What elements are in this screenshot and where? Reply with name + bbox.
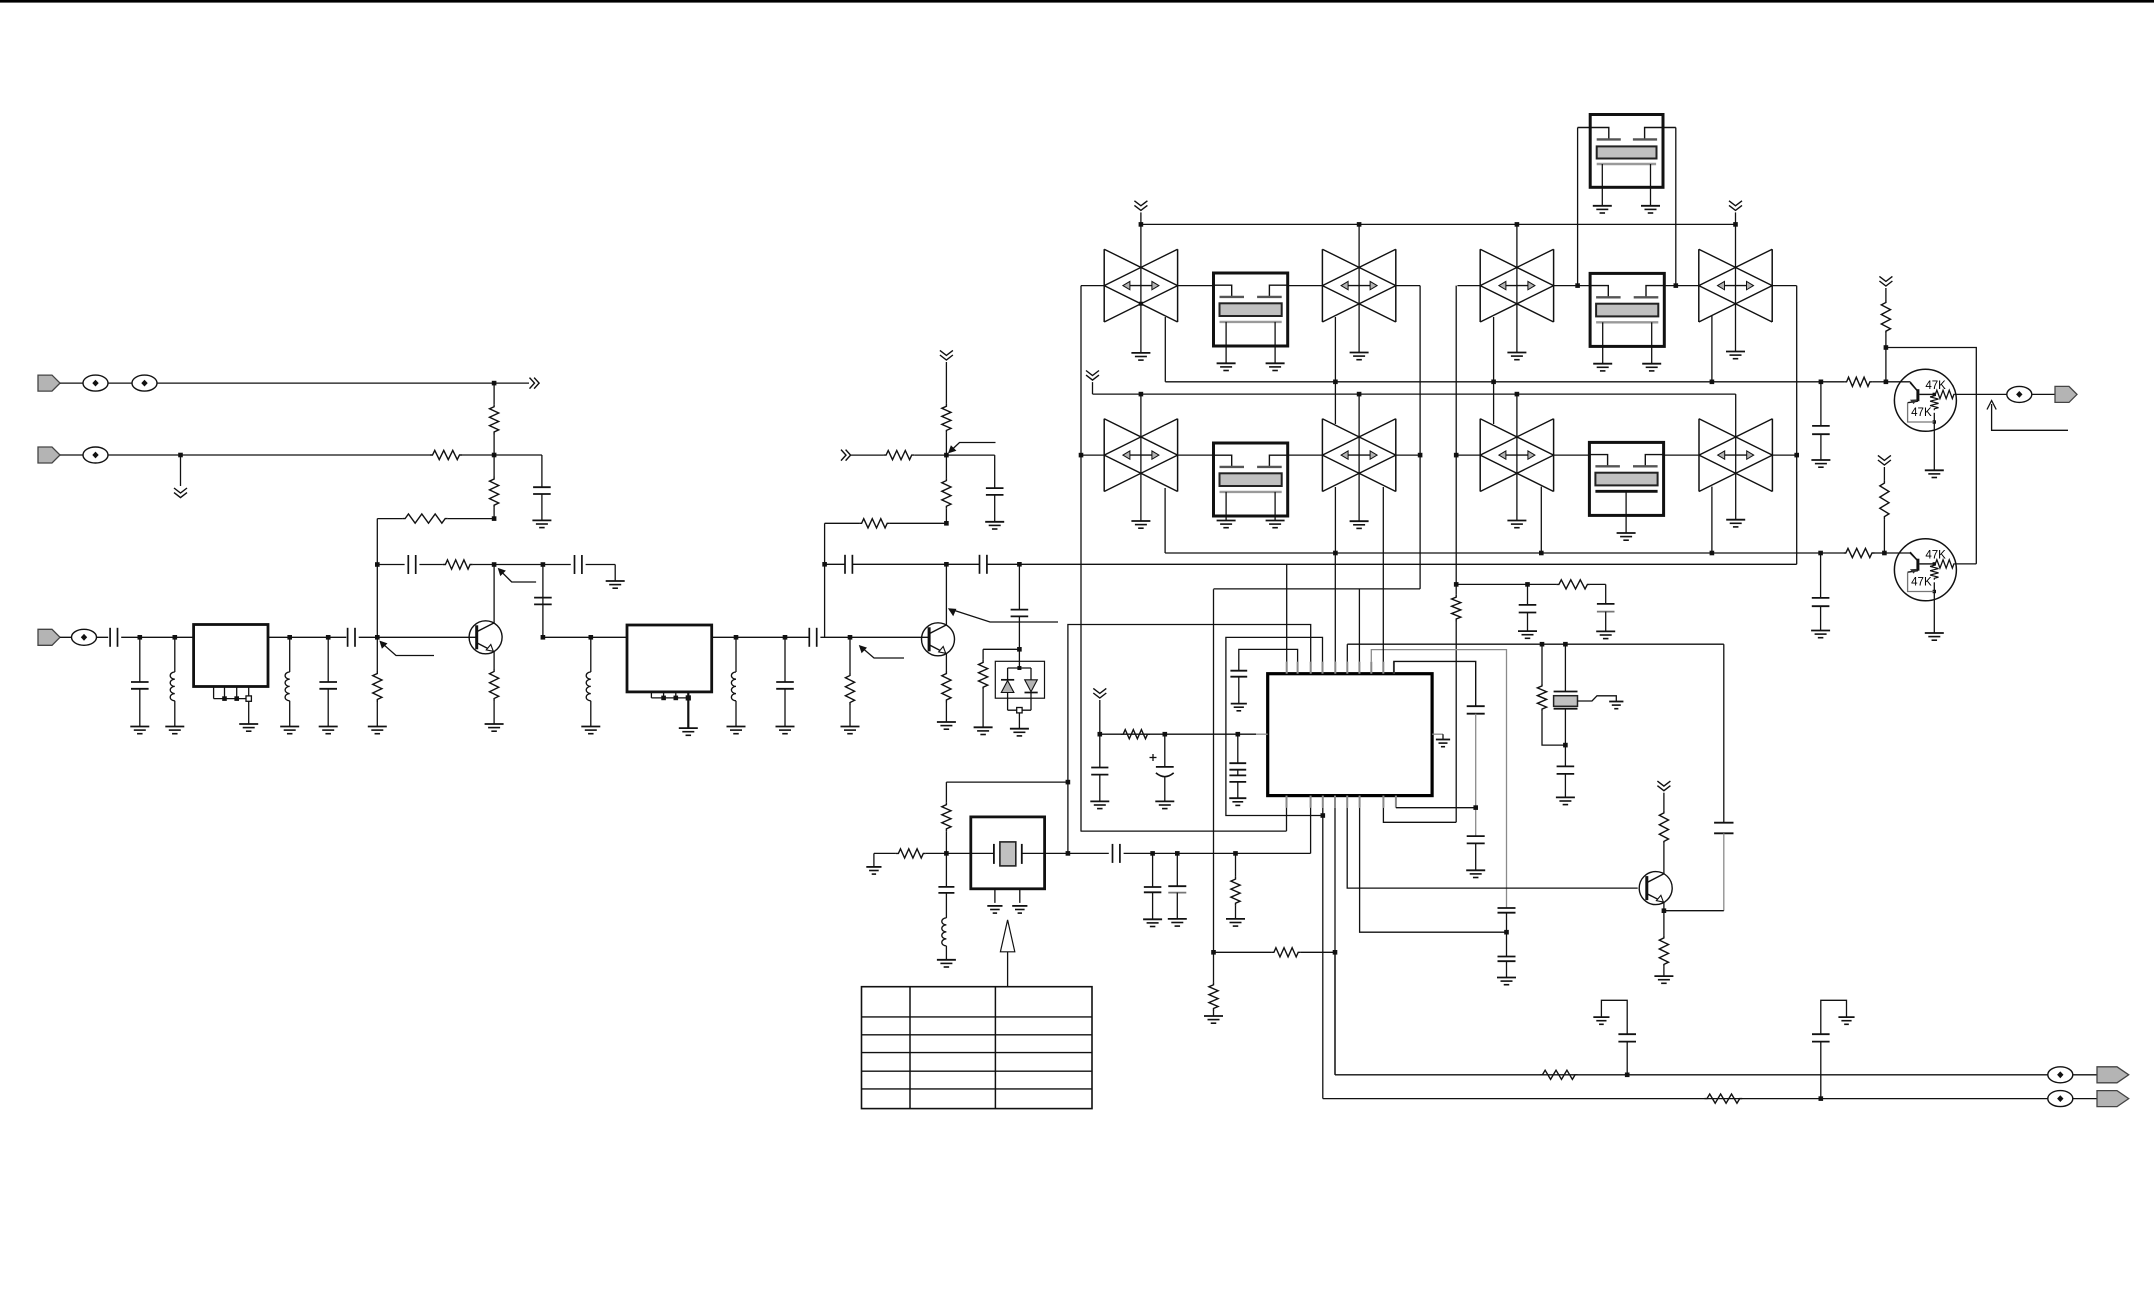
- wire pin9 to SW6 stub: [1382, 487, 1384, 662]
- wire pin5 from B2: [1334, 553, 1336, 662]
- table (crystal options): [862, 987, 1093, 1109]
- node pin16 join: [1473, 805, 1478, 810]
- ground C17: [1231, 703, 1247, 705]
- capacitor C31: [1564, 745, 1566, 766]
- wire Q2 collector: [945, 565, 947, 626]
- line A (switch control row1): [1165, 381, 1844, 383]
- wire: [1663, 793, 1665, 811]
- capacitor C34 (out2): [1820, 1042, 1822, 1099]
- wire pin11 box bottom: [1286, 808, 1288, 831]
- IC bottom pin stubs: [1286, 796, 1288, 808]
- svg-text:47K: 47K: [1925, 380, 1946, 392]
- wire: [543, 564, 571, 566]
- ground R22: [1204, 1015, 1223, 1017]
- wire: [1872, 381, 1886, 383]
- ferrite bead FB4: [72, 629, 97, 645]
- capacitor C10 (coupling): [808, 628, 810, 647]
- node rail2 c: [1515, 392, 1520, 397]
- ground C16: [1811, 630, 1830, 632]
- bus group1 left (wire): [1080, 286, 1082, 832]
- wire: [851, 454, 884, 456]
- capacitor C30: [1597, 603, 1615, 605]
- switch SW1 gate wire: [1140, 224, 1142, 353]
- capacitor C27: [1152, 853, 1154, 887]
- stub SW8 low: [1711, 487, 1713, 553]
- node Q3 emitter: [1662, 908, 1667, 913]
- node lineA cap: [1819, 380, 1824, 385]
- wire: [2032, 393, 2056, 395]
- node discr tap a: [1540, 642, 1545, 647]
- resistor R3 (feedback upper): [403, 514, 448, 523]
- ground L5: [937, 959, 956, 961]
- ground C6: [130, 726, 149, 728]
- node C14 tap: [1017, 562, 1022, 567]
- ground R6: [368, 726, 387, 728]
- capacitor C14 (to limiter): [1018, 564, 1020, 609]
- node out vertical row2: [1794, 453, 1799, 458]
- bus group2 left (wire): [1455, 286, 1457, 595]
- wire pin12 to crystal line: [1310, 808, 1312, 854]
- resistor R19 (osc feedback): [945, 782, 947, 802]
- wire Q4 out: [1955, 393, 2008, 395]
- node supply a: [1098, 732, 1103, 737]
- wire U-loop pin4: [1226, 637, 1323, 815]
- capacitor C7 (shunt): [327, 637, 329, 682]
- stub SW2/SW6: [1334, 317, 1336, 424]
- node bus1213 low: [1211, 950, 1216, 955]
- crystal Y1 (box): [971, 817, 1045, 889]
- node Q1 base: [375, 635, 380, 640]
- capacitor C25 (osc): [945, 853, 947, 887]
- wire: [462, 454, 494, 456]
- node discr cap1: [1525, 582, 1530, 587]
- wire Q1 base: [377, 636, 476, 638]
- node bus1420 row2: [1418, 453, 1423, 458]
- supply arrow Q3: [1657, 781, 1670, 791]
- row1 signal wires: [1081, 285, 1104, 287]
- connector J4 (output): [2055, 386, 2077, 402]
- capacitor C29: [1527, 584, 1529, 605]
- wire Q5 out: [1955, 563, 1976, 565]
- FL2 ground pins: [650, 692, 652, 698]
- node lineA c: [1491, 380, 1496, 385]
- resistor R22 (bus1213 shunt): [1213, 952, 1215, 982]
- node SW1 crossing: [1139, 302, 1143, 306]
- inductor L4 (shunt): [735, 637, 737, 672]
- wire X5 right leg: [1675, 128, 1677, 286]
- analog switch SW2: [1321, 249, 1323, 322]
- supply line: [1100, 733, 1256, 735]
- resistor R20: [1235, 853, 1237, 876]
- wire F2 long: [987, 563, 1797, 565]
- wire pin15 Q3 base: [1347, 808, 1638, 888]
- ground D1: [1010, 728, 1029, 730]
- pointer arrow at Q1 collector: [501, 571, 536, 582]
- ground C29: [1518, 630, 1537, 632]
- wire F2 b: [946, 563, 979, 565]
- wire: [946, 454, 994, 456]
- net arrow down (line2): [174, 488, 187, 498]
- node rail1 c: [1515, 222, 1520, 227]
- node rail2 a: [1139, 392, 1144, 397]
- transistor Q5 (digital 47K): [1894, 539, 1956, 601]
- wire FL1 out: [268, 636, 346, 638]
- capacitor C8 (coupling): [347, 628, 349, 647]
- wire Q4 emitter: [1933, 422, 1935, 470]
- node Q5 base: [1882, 551, 1887, 556]
- node Q4 load: [1884, 345, 1889, 350]
- ground IC right pin: [1436, 739, 1450, 741]
- ferrite bead FB7: [2048, 1091, 2073, 1107]
- net arrow right (line1): [530, 378, 540, 389]
- ground C7: [319, 726, 338, 728]
- wire out2: [1323, 1098, 2048, 1100]
- capacitor C6 (shunt): [139, 637, 141, 682]
- node L1: [173, 635, 178, 640]
- resistor R9a (collector load upper): [942, 404, 951, 433]
- ground C21: [1466, 869, 1485, 871]
- node xtal in: [944, 851, 949, 856]
- wire: [1883, 467, 1885, 481]
- wire pin18: [1396, 807, 1476, 809]
- wire Q3 emitter: [1663, 902, 1665, 935]
- wire Q2 base: [850, 636, 929, 638]
- wire: [1663, 967, 1665, 976]
- node C28: [1175, 851, 1180, 856]
- discr line: [1456, 583, 1556, 585]
- node supply c: [1236, 732, 1241, 737]
- wire res line: [1214, 951, 1272, 953]
- resistor R27 (Q4 load): [1881, 300, 1890, 334]
- resistor R10 (Q2 base bias): [849, 637, 851, 673]
- line B2 (switch control row2): [1165, 552, 1843, 554]
- table annotation arrow: [1007, 952, 1009, 987]
- ground Q5: [1925, 632, 1944, 634]
- wire: [1301, 951, 1335, 953]
- wire to C1: [494, 454, 542, 456]
- ground L2: [280, 726, 299, 728]
- svg-text:47K: 47K: [1911, 407, 1932, 419]
- node line1-collector junction: [492, 381, 497, 386]
- capacitor C19: [1498, 956, 1516, 958]
- IC right pin: [1432, 733, 1443, 735]
- wire Q5 base: [1884, 552, 1910, 554]
- wire: [1885, 348, 1887, 382]
- rail1 supply arrow left: [1134, 201, 1147, 211]
- wire: [1590, 583, 1606, 585]
- wire: [820, 636, 850, 638]
- wire loop: [1886, 348, 1976, 564]
- node out2 cap: [1819, 1096, 1824, 1101]
- node B2 cap: [1818, 551, 1823, 556]
- ground C27: [1143, 918, 1162, 920]
- resistor R7 (Q1 emitter): [490, 669, 499, 701]
- SAW filter X2: [1214, 443, 1288, 516]
- rail1 supply arrow right: [1729, 201, 1742, 211]
- resistor R6 (base bias): [376, 637, 378, 671]
- resistor R26 (Q3 emitter): [1659, 935, 1668, 967]
- resistor R15 (Q4 base): [1844, 377, 1872, 386]
- rail2 supply arrow: [1086, 371, 1099, 381]
- SAW filter X1: [1214, 273, 1288, 346]
- resistor R8 (bias feed): [884, 451, 915, 460]
- node rail1 b: [1357, 222, 1362, 227]
- wire: [121, 636, 193, 638]
- wire pin10 loop right: [1394, 661, 1476, 706]
- ground C15: [1811, 459, 1830, 461]
- wire: [586, 564, 616, 566]
- capacitor C18: [1498, 907, 1516, 909]
- wire out1 vertical: [1334, 952, 1336, 1075]
- wire W4 pin7: [1358, 589, 1360, 662]
- svg-text:47K: 47K: [1911, 576, 1932, 588]
- ground R20: [1226, 918, 1245, 920]
- wire fb: [890, 522, 947, 524]
- wire: [1664, 910, 1724, 912]
- wire osc top: [946, 781, 1068, 783]
- IC U1 (main receiver IC): [1268, 674, 1432, 796]
- switch SW4 gate wire: [1735, 224, 1737, 351]
- ground FL1: [239, 723, 258, 725]
- capacitor C12 (fb series): [844, 555, 846, 574]
- ground Q4: [1925, 469, 1944, 471]
- wire Q1 out drop: [542, 565, 544, 638]
- node R2/R3: [492, 516, 497, 521]
- wire: [494, 564, 543, 566]
- wire input: [60, 636, 108, 638]
- resistor R1 (collector load): [490, 404, 499, 434]
- resistor R4 (line2 series): [430, 450, 462, 459]
- wire to arrow: [494, 382, 529, 384]
- resistor R29 (out1): [1540, 1070, 1578, 1079]
- wire: [926, 852, 971, 854]
- node rail2 b: [1357, 392, 1362, 397]
- node L2: [287, 635, 292, 640]
- ground Q1 emitter: [485, 723, 504, 725]
- switch SW7 gate wire: [1516, 394, 1518, 520]
- wire: [1885, 288, 1887, 300]
- ferrite bead FB2: [132, 375, 157, 391]
- analog switch SW8: [1698, 419, 1700, 492]
- wire fb: [377, 564, 404, 566]
- wire to R13: [983, 648, 1019, 650]
- wire Q1 collector: [493, 565, 495, 624]
- capacitor C21: [1467, 835, 1485, 837]
- node Q2 fb: [944, 521, 949, 526]
- capacitor C24b: [1229, 774, 1246, 776]
- pointer arrow at divider top: [951, 443, 996, 451]
- row2 signal wires: [1081, 454, 1104, 456]
- resistor R16 (Q5 base): [1843, 548, 1874, 557]
- resistor R2 (divider): [490, 477, 499, 508]
- node L4: [734, 635, 739, 640]
- wire fb drop: [824, 523, 826, 637]
- node C9: [783, 635, 788, 640]
- ground Z1 tap: [1609, 701, 1623, 703]
- capacitor C11 (bias bypass): [994, 455, 996, 488]
- stub SW6 low: [1334, 487, 1336, 553]
- wire supply: [945, 362, 947, 404]
- wire: [2073, 1074, 2098, 1076]
- wire Q5 emitter: [1933, 592, 1935, 634]
- wire pin17 to bus1456: [1383, 808, 1456, 823]
- wire line2 left: [60, 454, 181, 456]
- connector J3 (RF input): [38, 629, 60, 645]
- wire: [419, 564, 443, 566]
- node L3: [589, 635, 594, 640]
- connector J6 (output low 2): [2097, 1091, 2129, 1107]
- inductor L2 (shunt): [289, 637, 291, 672]
- wire pin2 loop: [1239, 649, 1298, 670]
- capacitor C13 (output series): [979, 555, 981, 574]
- wire: [825, 522, 860, 524]
- node lineA b: [1333, 380, 1338, 385]
- wire: [1875, 552, 1885, 554]
- ground L1: [165, 726, 184, 728]
- capacitor C4 (interstage): [534, 597, 552, 599]
- capacitor C28: [1176, 853, 1178, 886]
- wire pin14 down: [1334, 808, 1336, 1075]
- wire discr to Q3: [1723, 644, 1725, 823]
- top border bar: [0, 0, 2154, 3]
- resistor R12 (Q2 feedback): [859, 519, 890, 528]
- bus group1 right (wire): [1419, 286, 1421, 589]
- wire: [543, 636, 627, 638]
- node rail1 d: [1733, 222, 1738, 227]
- wire osc drop: [1067, 782, 1069, 853]
- wire pin13 down: [1322, 808, 1324, 1099]
- node F2 left: [822, 562, 827, 567]
- wire out1: [1335, 1074, 2048, 1076]
- node Q2 base: [848, 635, 853, 640]
- node C4 tap: [541, 562, 546, 567]
- filter FL1 (box): [194, 625, 268, 687]
- ground C28: [1168, 918, 1187, 920]
- wire: [493, 455, 495, 477]
- node R21 right: [1333, 950, 1338, 955]
- analog switch SW4: [1698, 249, 1700, 322]
- node line2 stub: [178, 453, 183, 458]
- wire R3 line: [448, 518, 494, 520]
- stub wire down: [180, 455, 182, 486]
- ground Q2 emitter: [937, 721, 956, 723]
- node C6: [138, 635, 143, 640]
- ground C30: [1596, 630, 1615, 632]
- capacitor C2 (feedback): [407, 555, 409, 574]
- wire xtal out: [1045, 852, 1109, 854]
- node lineA d: [1710, 380, 1715, 385]
- bus 1213 (wire): [1213, 589, 1215, 952]
- pointer arrow at Q1 base: [382, 643, 434, 655]
- resistor R5 (feedback): [443, 560, 473, 569]
- resistor R30 (out2): [1705, 1094, 1743, 1103]
- FL1 ground pins: [213, 687, 215, 699]
- analog switch SW7: [1479, 419, 1481, 492]
- transistor Q1: [469, 621, 502, 654]
- connector J1 (input line 1): [38, 375, 60, 391]
- wire Q4 base: [1886, 381, 1910, 383]
- resistor R11 (Q2 emitter): [942, 671, 951, 703]
- node bus1081 row2: [1079, 453, 1084, 458]
- wire: [1885, 334, 1887, 348]
- supply arrow stage2: [940, 350, 953, 360]
- inductor L3 (shunt): [590, 637, 592, 672]
- capacitor C20: [1467, 705, 1485, 707]
- wire: [945, 703, 947, 723]
- inductor L5 (osc): [945, 893, 947, 918]
- capacitor C23 (electrolytic): [1164, 734, 1166, 767]
- analog switch SW5: [1103, 419, 1105, 492]
- node limiter top: [1017, 647, 1022, 652]
- IC top pin stubs: [1286, 662, 1288, 674]
- wire R1 bottom: [493, 435, 495, 456]
- wire: [473, 564, 495, 566]
- ground C33: [1593, 1016, 1609, 1018]
- resistor R23 (discr): [1556, 580, 1590, 589]
- ground C24: [1229, 797, 1246, 799]
- net arrow right (stage2 bias in): [841, 450, 851, 461]
- diode pair D1 (limiter box): [995, 661, 1044, 698]
- wire pin6 discr line: [1346, 644, 1348, 662]
- wire F2 a: [825, 563, 845, 565]
- supply arrow IC: [1093, 688, 1106, 698]
- ground C11: [985, 521, 1004, 523]
- node X5 left: [1575, 283, 1580, 288]
- resistor R28 (Q5 supply): [1880, 481, 1889, 520]
- stub SW1 out: [1164, 317, 1166, 382]
- ferrite bead FB3: [83, 447, 108, 463]
- node X5 right: [1674, 283, 1679, 288]
- wire pin1 to F2: [1286, 564, 1288, 662]
- node rail1 a: [1139, 222, 1144, 227]
- rail1 wire: [1141, 223, 1736, 225]
- switch SW3 gate wire: [1516, 224, 1518, 352]
- ground C34: [1838, 1016, 1854, 1018]
- resistor R9b (collector load lower): [945, 455, 947, 478]
- wire W3 (osc to pin3): [1068, 625, 1311, 783]
- supply arrow Q4: [1879, 276, 1892, 286]
- ground Q3: [1654, 975, 1673, 977]
- analog switch SW1: [1103, 249, 1105, 322]
- node C18/C19: [1504, 930, 1509, 935]
- ground R10: [841, 726, 860, 728]
- wire X5 left leg: [1577, 128, 1579, 286]
- SAW filter X4: [1589, 442, 1663, 515]
- wire R1 top: [493, 383, 495, 404]
- node R20: [1233, 851, 1238, 856]
- resistor R24 (discr shunt): [1541, 644, 1543, 683]
- capacitor C33 (out1): [1626, 1042, 1628, 1075]
- stub SW3/SW7: [1493, 317, 1495, 424]
- node Q4 base: [1884, 380, 1889, 385]
- resistor R17 (supply): [1121, 730, 1150, 739]
- bus group1 box bottom (wire): [1081, 830, 1287, 832]
- pointer arrow A: [1992, 404, 2068, 430]
- wire pin16 loop: [1360, 808, 1507, 933]
- pointer arrow at Q2 collector: [952, 610, 1059, 623]
- resistor R25 (Q3 collector): [1659, 810, 1668, 844]
- SAW filter X5 (top, paralleled): [1590, 115, 1663, 188]
- ground Y1 a: [987, 905, 1002, 907]
- wire R3 drop: [376, 519, 378, 565]
- node bus1456 row2: [1454, 453, 1459, 458]
- node U-loop: [1321, 813, 1326, 818]
- node osc top: [1066, 780, 1071, 785]
- node C27: [1150, 851, 1155, 856]
- wire: [945, 433, 947, 455]
- ceramic resonator Z1: [1564, 644, 1566, 691]
- ground FL2: [679, 727, 698, 729]
